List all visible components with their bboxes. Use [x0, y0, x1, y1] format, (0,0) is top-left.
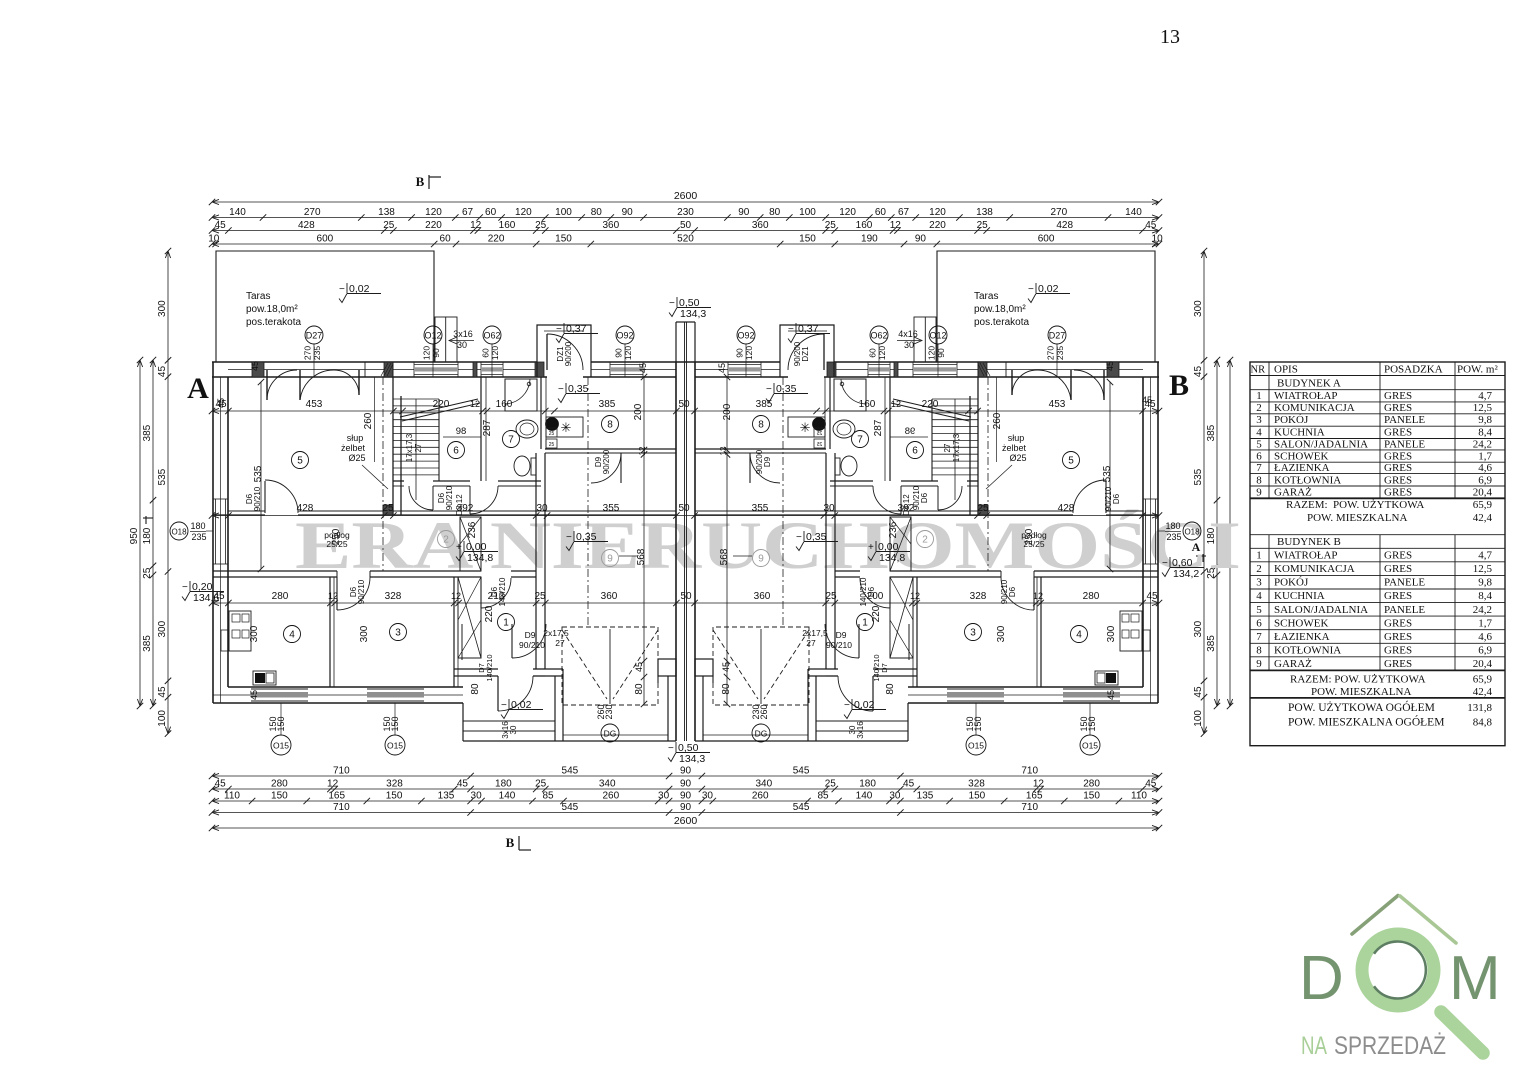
svg-text:25: 25	[977, 220, 989, 231]
svg-text:385: 385	[599, 399, 616, 410]
svg-text:−: −	[844, 700, 850, 711]
svg-text:45: 45	[1145, 220, 1157, 231]
svg-text:90: 90	[738, 207, 750, 218]
svg-text:160: 160	[499, 220, 516, 231]
svg-text:D6: D6	[1008, 586, 1017, 597]
window label O18 left	[170, 522, 188, 540]
svg-text:100: 100	[1193, 710, 1204, 727]
dim chain bottom row2	[212, 788, 1159, 790]
svg-text:328: 328	[970, 591, 987, 602]
svg-text:80: 80	[470, 683, 481, 695]
room number 3	[390, 624, 407, 641]
svg-text:90/210: 90/210	[445, 485, 454, 510]
svg-text:KOMUNIKACJA: KOMUNIKACJA	[1274, 563, 1355, 575]
svg-text:710: 710	[1021, 766, 1038, 777]
party wall lower	[702, 676, 704, 741]
svg-text:PANELE: PANELE	[1384, 577, 1425, 589]
stair void rect upper	[890, 517, 911, 571]
svg-text:−: −	[669, 298, 675, 309]
svg-text:140: 140	[1125, 207, 1142, 218]
window O92 in top wall	[610, 364, 643, 366]
svg-text:428: 428	[1058, 503, 1075, 514]
svg-text:300: 300	[996, 625, 1007, 642]
interior wall rooms 6/7 bottom	[393, 480, 404, 482]
svg-text:PANELE: PANELE	[1384, 439, 1425, 451]
svg-text:950: 950	[129, 527, 140, 544]
svg-text:235: 235	[1055, 346, 1065, 360]
svg-text:4: 4	[1256, 427, 1262, 439]
svg-text:260: 260	[363, 412, 374, 429]
svg-text:POW. MIESZKALNA OGÓŁEM: POW. MIESZKALNA OGÓŁEM	[1288, 715, 1444, 729]
wiatrolap outer door opening	[872, 676, 874, 711]
party wall lower	[667, 676, 669, 741]
svg-text:25: 25	[534, 591, 546, 602]
svg-text:25: 25	[825, 591, 837, 602]
svg-text:385: 385	[142, 424, 153, 441]
svg-text:30: 30	[658, 791, 670, 802]
door salon-komunikacja	[1105, 481, 1107, 513]
svg-text:12: 12	[451, 591, 461, 601]
svg-text:ŁAZIENKA: ŁAZIENKA	[1274, 462, 1330, 474]
svg-text:90/200: 90/200	[602, 449, 611, 474]
left wall window	[1155, 499, 1157, 564]
garage SE pier	[658, 659, 676, 676]
interior vertical dim chain x644	[643, 377, 645, 704]
svg-text:220: 220	[433, 399, 450, 410]
svg-text:150: 150	[386, 791, 403, 802]
svg-text:235: 235	[1166, 532, 1181, 542]
interior vertical dim chain x644	[726, 377, 728, 704]
outer wall left	[212, 362, 214, 703]
terrace right outline	[937, 251, 1155, 362]
svg-text:90: 90	[614, 348, 624, 358]
svg-text:568: 568	[719, 548, 730, 565]
svg-text:287: 287	[873, 419, 884, 436]
window O62 in top wall	[868, 364, 890, 366]
svg-text:D6: D6	[1112, 493, 1121, 504]
garage door label DG	[752, 724, 770, 742]
svg-text:1: 1	[503, 618, 509, 629]
svg-text:270: 270	[1046, 346, 1056, 360]
dim chain right middle	[1216, 360, 1218, 706]
svg-text:−: −	[766, 384, 772, 395]
svg-text:ŁAZIENKA: ŁAZIENKA	[1274, 631, 1330, 643]
wall pier	[978, 362, 987, 377]
svg-text:90/210: 90/210	[826, 640, 852, 650]
boiler	[813, 418, 826, 431]
svg-text:80: 80	[885, 683, 896, 695]
svg-text:✳: ✳	[561, 420, 572, 435]
svg-text:120: 120	[623, 346, 633, 360]
svg-text:4: 4	[1076, 630, 1082, 641]
section mark A left	[145, 516, 147, 524]
svg-text:355: 355	[752, 503, 769, 514]
interior wall rooms 3/4 top (y571-577)	[1034, 570, 1158, 572]
svg-text:6: 6	[912, 446, 918, 457]
svg-text:2x17,5: 2x17,5	[543, 628, 569, 638]
svg-text:GARAŻ: GARAŻ	[1274, 487, 1312, 499]
door D8 arc bath	[900, 486, 902, 514]
svg-text:5: 5	[1068, 456, 1074, 467]
svg-text:45: 45	[457, 779, 469, 790]
window label O62	[870, 326, 888, 344]
svg-text:270: 270	[304, 207, 321, 218]
svg-text:90: 90	[680, 802, 692, 813]
svg-text:9,8: 9,8	[1478, 577, 1492, 589]
svg-text:165: 165	[1026, 791, 1043, 802]
svg-text:BUDYNEK B: BUDYNEK B	[1277, 536, 1341, 548]
svg-text:9: 9	[1256, 658, 1262, 670]
svg-text:80: 80	[769, 207, 781, 218]
svg-text:45: 45	[250, 361, 260, 371]
entrance recess DZ1	[780, 325, 834, 377]
garage bottom wall	[808, 668, 826, 670]
svg-text:42,4: 42,4	[1473, 686, 1493, 698]
svg-text:260: 260	[992, 412, 1003, 429]
svg-text:GRES: GRES	[1384, 487, 1412, 499]
svg-text:pos.terakota: pos.terakota	[246, 317, 301, 328]
svg-text:236: 236	[467, 521, 478, 538]
svg-text:D8,12: D8,12	[455, 494, 464, 516]
svg-text:220: 220	[922, 399, 939, 410]
svg-text:45: 45	[1105, 361, 1115, 371]
svg-text:150: 150	[555, 234, 572, 245]
svg-text:90: 90	[680, 791, 692, 802]
svg-text:−: −	[1028, 284, 1034, 295]
washbasin	[516, 420, 538, 438]
svg-text:2: 2	[443, 535, 449, 546]
svg-text:B: B	[1169, 369, 1189, 402]
outer wall top	[212, 361, 537, 363]
window label O15	[966, 735, 986, 755]
dashed section line x588	[782, 377, 784, 627]
svg-text:O18: O18	[171, 528, 187, 537]
svg-text:260: 260	[752, 791, 769, 802]
svg-text:328: 328	[386, 779, 403, 790]
dim chain top row2	[212, 230, 1159, 232]
washbasin	[833, 420, 855, 438]
room number 9	[602, 550, 619, 567]
svg-text:220: 220	[871, 605, 882, 622]
svg-text:7: 7	[1256, 462, 1262, 474]
svg-text:30: 30	[536, 503, 548, 514]
svg-text:D9: D9	[763, 456, 772, 467]
svg-text:BUDYNEK A: BUDYNEK A	[1277, 378, 1341, 390]
svg-text:135: 135	[438, 791, 455, 802]
svg-text:SALON/JADALNIA: SALON/JADALNIA	[1274, 439, 1368, 451]
svg-text:−: −	[1162, 558, 1168, 569]
svg-text:4: 4	[289, 630, 295, 641]
svg-text:D7: D7	[880, 663, 889, 673]
svg-text:150: 150	[965, 716, 975, 731]
dashed section line x383	[987, 377, 989, 571]
bottom window 2	[947, 688, 1004, 690]
terrace door pier	[365, 362, 393, 377]
svg-text:110: 110	[224, 791, 240, 802]
garage dashed box	[562, 627, 658, 705]
svg-text:−: −	[339, 284, 345, 295]
svg-text:600: 600	[1038, 234, 1055, 245]
svg-text:30: 30	[904, 340, 914, 350]
svg-text:4: 4	[1256, 590, 1262, 602]
door D6 90/210 arc	[1033, 577, 1035, 610]
svg-text:17x17,3: 17x17,3	[405, 433, 414, 462]
stair void rect upper	[460, 517, 481, 571]
svg-text:Taras: Taras	[974, 291, 998, 302]
svg-text:150: 150	[969, 791, 986, 802]
svg-text:140: 140	[856, 791, 873, 802]
stairs	[393, 398, 439, 400]
svg-text:85: 85	[817, 791, 829, 802]
svg-text:25: 25	[142, 567, 153, 579]
svg-text:100: 100	[555, 207, 572, 218]
svg-text:+: +	[868, 542, 874, 553]
svg-text:2: 2	[1256, 563, 1262, 575]
svg-text:1: 1	[862, 618, 868, 629]
svg-text:328: 328	[385, 591, 402, 602]
svg-text:140: 140	[229, 207, 246, 218]
outer wall left	[1157, 362, 1159, 703]
logo roof left	[1352, 896, 1398, 935]
svg-text:O15: O15	[273, 741, 289, 751]
svg-text:520: 520	[677, 234, 694, 245]
svg-text:453: 453	[1049, 399, 1066, 410]
svg-text:90/210: 90/210	[912, 485, 921, 510]
kitchen sink unit	[221, 630, 229, 651]
svg-text:235: 235	[191, 532, 206, 542]
porch outline	[462, 703, 464, 741]
svg-text:3: 3	[1256, 577, 1262, 589]
svg-text:6: 6	[1256, 617, 1262, 629]
svg-text:OPIS: OPIS	[1274, 364, 1298, 376]
svg-text:60: 60	[481, 348, 491, 358]
svg-text:150: 150	[276, 716, 286, 731]
svg-text:98: 98	[456, 426, 467, 437]
svg-text:220: 220	[425, 220, 442, 231]
svg-text:90/210: 90/210	[1000, 579, 1009, 604]
garage door label DG	[601, 724, 619, 742]
svg-text:90: 90	[680, 779, 692, 790]
interior dim row y515	[212, 515, 1159, 517]
door D9 garage arc	[511, 624, 513, 658]
svg-text:12: 12	[327, 779, 339, 790]
svg-text:O15: O15	[1082, 741, 1098, 751]
svg-text:D6: D6	[867, 586, 876, 597]
svg-text:8: 8	[607, 420, 613, 431]
svg-text:SPRZEDAŻ: SPRZEDAŻ	[1334, 1031, 1446, 1060]
svg-text:8: 8	[758, 420, 764, 431]
svg-text:134,3: 134,3	[680, 308, 706, 320]
svg-text:270: 270	[1050, 207, 1067, 218]
window label O62	[483, 326, 501, 344]
svg-text:90/210: 90/210	[519, 640, 545, 650]
svg-text:300: 300	[249, 625, 260, 642]
svg-text:25: 25	[817, 442, 823, 448]
room number 5	[292, 452, 309, 469]
svg-text:9: 9	[1256, 487, 1262, 499]
interior wall 7/8 divider	[540, 377, 542, 449]
svg-text:545: 545	[562, 766, 579, 777]
svg-text:POW. UŻYTKOWA OGÓŁEM: POW. UŻYTKOWA OGÓŁEM	[1288, 700, 1435, 714]
svg-text:280: 280	[1083, 779, 1100, 790]
interior dim row y603	[212, 602, 1159, 604]
svg-text:GRES: GRES	[1384, 645, 1412, 657]
svg-text:138: 138	[976, 207, 993, 218]
svg-text:300: 300	[1106, 625, 1117, 642]
svg-text:90: 90	[431, 348, 441, 358]
svg-text:150: 150	[390, 716, 400, 731]
svg-text:6,9: 6,9	[1478, 474, 1492, 486]
door D9 kotlownia arc	[620, 453, 622, 483]
wiatrolap outer door opening	[497, 676, 499, 711]
svg-text:KOTŁOWNIA: KOTŁOWNIA	[1274, 474, 1341, 486]
svg-text:6: 6	[1256, 451, 1262, 463]
svg-text:PANELE: PANELE	[1384, 414, 1425, 426]
wall pier	[1107, 362, 1119, 377]
svg-text:12: 12	[328, 591, 338, 601]
boiler small boxes	[546, 428, 557, 437]
svg-text:150: 150	[1079, 716, 1089, 731]
svg-text:9,8: 9,8	[1478, 414, 1492, 426]
svg-text:134,8: 134,8	[467, 552, 493, 564]
svg-text:135: 135	[917, 791, 934, 802]
svg-text:50: 50	[678, 399, 690, 410]
window O92 in top wall	[728, 364, 761, 366]
svg-text:−: −	[668, 743, 674, 754]
svg-text:8,4: 8,4	[1478, 590, 1492, 602]
svg-text:12: 12	[470, 399, 480, 409]
stair break line	[400, 399, 478, 417]
room number 1	[498, 614, 515, 631]
shower	[505, 379, 537, 411]
svg-text:180: 180	[142, 527, 153, 544]
wall pier	[894, 362, 898, 377]
svg-text:KOMUNIKACJA: KOMUNIKACJA	[1274, 402, 1355, 414]
svg-text:A: A	[187, 372, 209, 405]
boiler	[546, 418, 559, 431]
svg-text:D9: D9	[525, 630, 536, 640]
stair void rect lower	[890, 577, 913, 658]
svg-text:SCHOWEK: SCHOWEK	[1274, 451, 1328, 463]
svg-text:GRES: GRES	[1384, 550, 1412, 562]
svg-text:287: 287	[482, 419, 493, 436]
svg-text:340: 340	[599, 779, 616, 790]
svg-text:45: 45	[1193, 366, 1204, 378]
svg-text:230: 230	[677, 207, 694, 218]
garage bottom wall	[545, 668, 563, 670]
interior wall 7/8 divider	[829, 377, 831, 449]
svg-text:428: 428	[1056, 220, 1073, 231]
svg-text:20,4: 20,4	[1473, 658, 1493, 670]
svg-text:D27: D27	[1049, 331, 1066, 341]
stair right wall	[438, 399, 440, 481]
interior dim row y411	[212, 410, 1159, 412]
boiler small boxes	[814, 428, 825, 437]
door D9 garage arc	[858, 624, 860, 658]
svg-text:80: 80	[591, 207, 603, 218]
svg-text:25: 25	[977, 503, 989, 514]
svg-text:50: 50	[680, 591, 692, 602]
svg-text:428: 428	[298, 220, 315, 231]
svg-text:7: 7	[857, 435, 863, 446]
svg-text:385: 385	[1206, 424, 1217, 441]
svg-text:pow.18,0m²: pow.18,0m²	[974, 304, 1026, 315]
wall pier	[252, 362, 264, 377]
svg-text:45: 45	[215, 220, 227, 231]
svg-text:328: 328	[968, 779, 985, 790]
svg-text:180: 180	[190, 521, 205, 531]
svg-text:−: −	[556, 324, 562, 335]
svg-text:535: 535	[157, 468, 168, 485]
svg-text:120: 120	[425, 207, 442, 218]
svg-text:Ø25: Ø25	[1009, 453, 1026, 463]
svg-text:RAZEM: POW. UŻYTKOWA: RAZEM: POW. UŻYTKOWA	[1290, 674, 1426, 686]
shower	[834, 379, 866, 411]
garage dashed box	[713, 627, 809, 705]
svg-text:385: 385	[756, 399, 773, 410]
svg-text:60: 60	[485, 207, 497, 218]
svg-text:5: 5	[1256, 604, 1262, 616]
svg-text:30: 30	[509, 725, 518, 734]
svg-text:300: 300	[1193, 300, 1204, 317]
dim chain left outer 950	[139, 360, 141, 706]
svg-text:180: 180	[1165, 521, 1180, 531]
wiatrolap south wall	[873, 668, 917, 670]
kitchen sink unit	[1142, 630, 1150, 651]
svg-text:545: 545	[562, 802, 579, 813]
svg-text:WIATROŁAP: WIATROŁAP	[1274, 550, 1338, 562]
svg-text:GRES: GRES	[1384, 451, 1412, 463]
driveway sill	[563, 734, 668, 736]
wall pier	[473, 362, 477, 377]
dim chain bottom row3	[212, 800, 1159, 802]
svg-text:355: 355	[603, 503, 620, 514]
svg-text:150: 150	[799, 234, 816, 245]
svg-text:D27: D27	[306, 331, 323, 341]
svg-text:90/210: 90/210	[1104, 486, 1113, 511]
svg-text:280: 280	[1083, 591, 1100, 602]
room number 2	[438, 531, 455, 548]
svg-text:535: 535	[1102, 465, 1113, 482]
svg-text:220: 220	[484, 605, 495, 622]
svg-text:250: 250	[1024, 528, 1035, 545]
svg-text:7: 7	[508, 435, 514, 446]
terrace door pier	[978, 362, 1006, 377]
svg-text:30: 30	[848, 725, 857, 734]
window label D27	[305, 326, 323, 344]
svg-text:120: 120	[515, 207, 532, 218]
svg-text:KUCHNIA: KUCHNIA	[1274, 427, 1325, 439]
svg-text:300: 300	[157, 300, 168, 317]
svg-text:pos.terakota: pos.terakota	[974, 317, 1029, 328]
svg-text:8: 8	[1256, 474, 1262, 486]
svg-text:słup: słup	[1008, 433, 1025, 443]
svg-text:D: D	[1299, 944, 1344, 1013]
driveway sill	[703, 734, 808, 736]
toilet	[841, 456, 857, 476]
dim chain top row1	[212, 217, 1159, 219]
svg-text:KOTŁOWNIA: KOTŁOWNIA	[1274, 645, 1341, 657]
svg-text:90/200: 90/200	[564, 341, 573, 366]
stair right wall	[931, 399, 933, 481]
svg-text:9: 9	[758, 554, 764, 565]
chimney pier near stairs	[978, 505, 988, 515]
svg-text:O62: O62	[483, 331, 500, 341]
kitchen counter	[1120, 611, 1142, 651]
svg-text:25: 25	[535, 220, 547, 231]
svg-text:90: 90	[936, 348, 946, 358]
svg-text:45: 45	[1106, 690, 1116, 700]
